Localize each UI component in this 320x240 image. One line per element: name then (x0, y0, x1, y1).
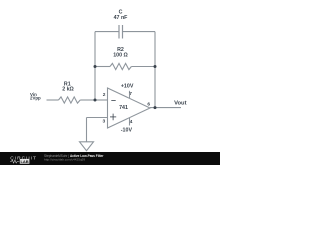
svg-text:3: 3 (103, 119, 106, 125)
svg-text:741: 741 (119, 105, 128, 111)
resistor R1 zigzag (59, 97, 81, 103)
wire R2 right lead (131, 66, 155, 68)
pin 7 stub (129, 91, 131, 99)
svg-text:7: 7 (129, 91, 132, 97)
svg-text:6: 6 (147, 102, 150, 108)
svg-text:2Vpp: 2Vpp (30, 96, 41, 101)
junction node output (154, 106, 157, 109)
CircuitLab logo resistor zigzag (10, 160, 19, 163)
wire R2 left lead (95, 66, 110, 68)
op-amp plus sign (110, 114, 116, 121)
svg-text:4: 4 (130, 119, 133, 125)
wire input to R1 (47, 99, 59, 101)
svg-text:+10V: +10V (121, 84, 134, 90)
svg-text:LAB: LAB (20, 159, 28, 164)
watermark bar background (0, 152, 220, 165)
svg-text:2: 2 (103, 92, 106, 98)
CircuitLab logo LAB badge (20, 159, 30, 164)
wire top-left horizontal (node to C left plate) (95, 31, 119, 33)
junction node left R2 (94, 65, 97, 68)
ground symbol (80, 142, 94, 151)
capacitor C1 plates (119, 25, 123, 39)
svg-text:http://circuitlab.com/c4425q59: http://circuitlab.com/c4425q59 (44, 158, 85, 162)
wire top-right horizontal (C right plate to right vertical) (123, 31, 156, 33)
junction node right R2 (154, 65, 157, 68)
svg-text:2 kΩ: 2 kΩ (62, 86, 74, 92)
wire output (150, 107, 181, 109)
wire node A to pin 2 (95, 99, 108, 101)
wire ground vertical (86, 118, 88, 142)
svg-text:47 nF: 47 nF (114, 15, 129, 21)
wire pin 3 horizontal (87, 117, 108, 119)
wire right vertical (feedback right rail) (154, 32, 156, 108)
wire R1 to node A (80, 99, 95, 101)
svg-text:100 Ω: 100 Ω (113, 53, 128, 59)
pin 4 stub (129, 118, 131, 126)
op-amp U1 triangle (108, 88, 151, 128)
svg-text:Vout: Vout (174, 100, 187, 106)
op-amp minus sign (111, 100, 115, 102)
junction node A (R1/pin2/feedback) (94, 99, 97, 102)
wire left vertical (feedback left rail) (94, 32, 96, 100)
svg-text:-10V: -10V (121, 128, 133, 134)
resistor R2 zigzag (110, 63, 131, 69)
